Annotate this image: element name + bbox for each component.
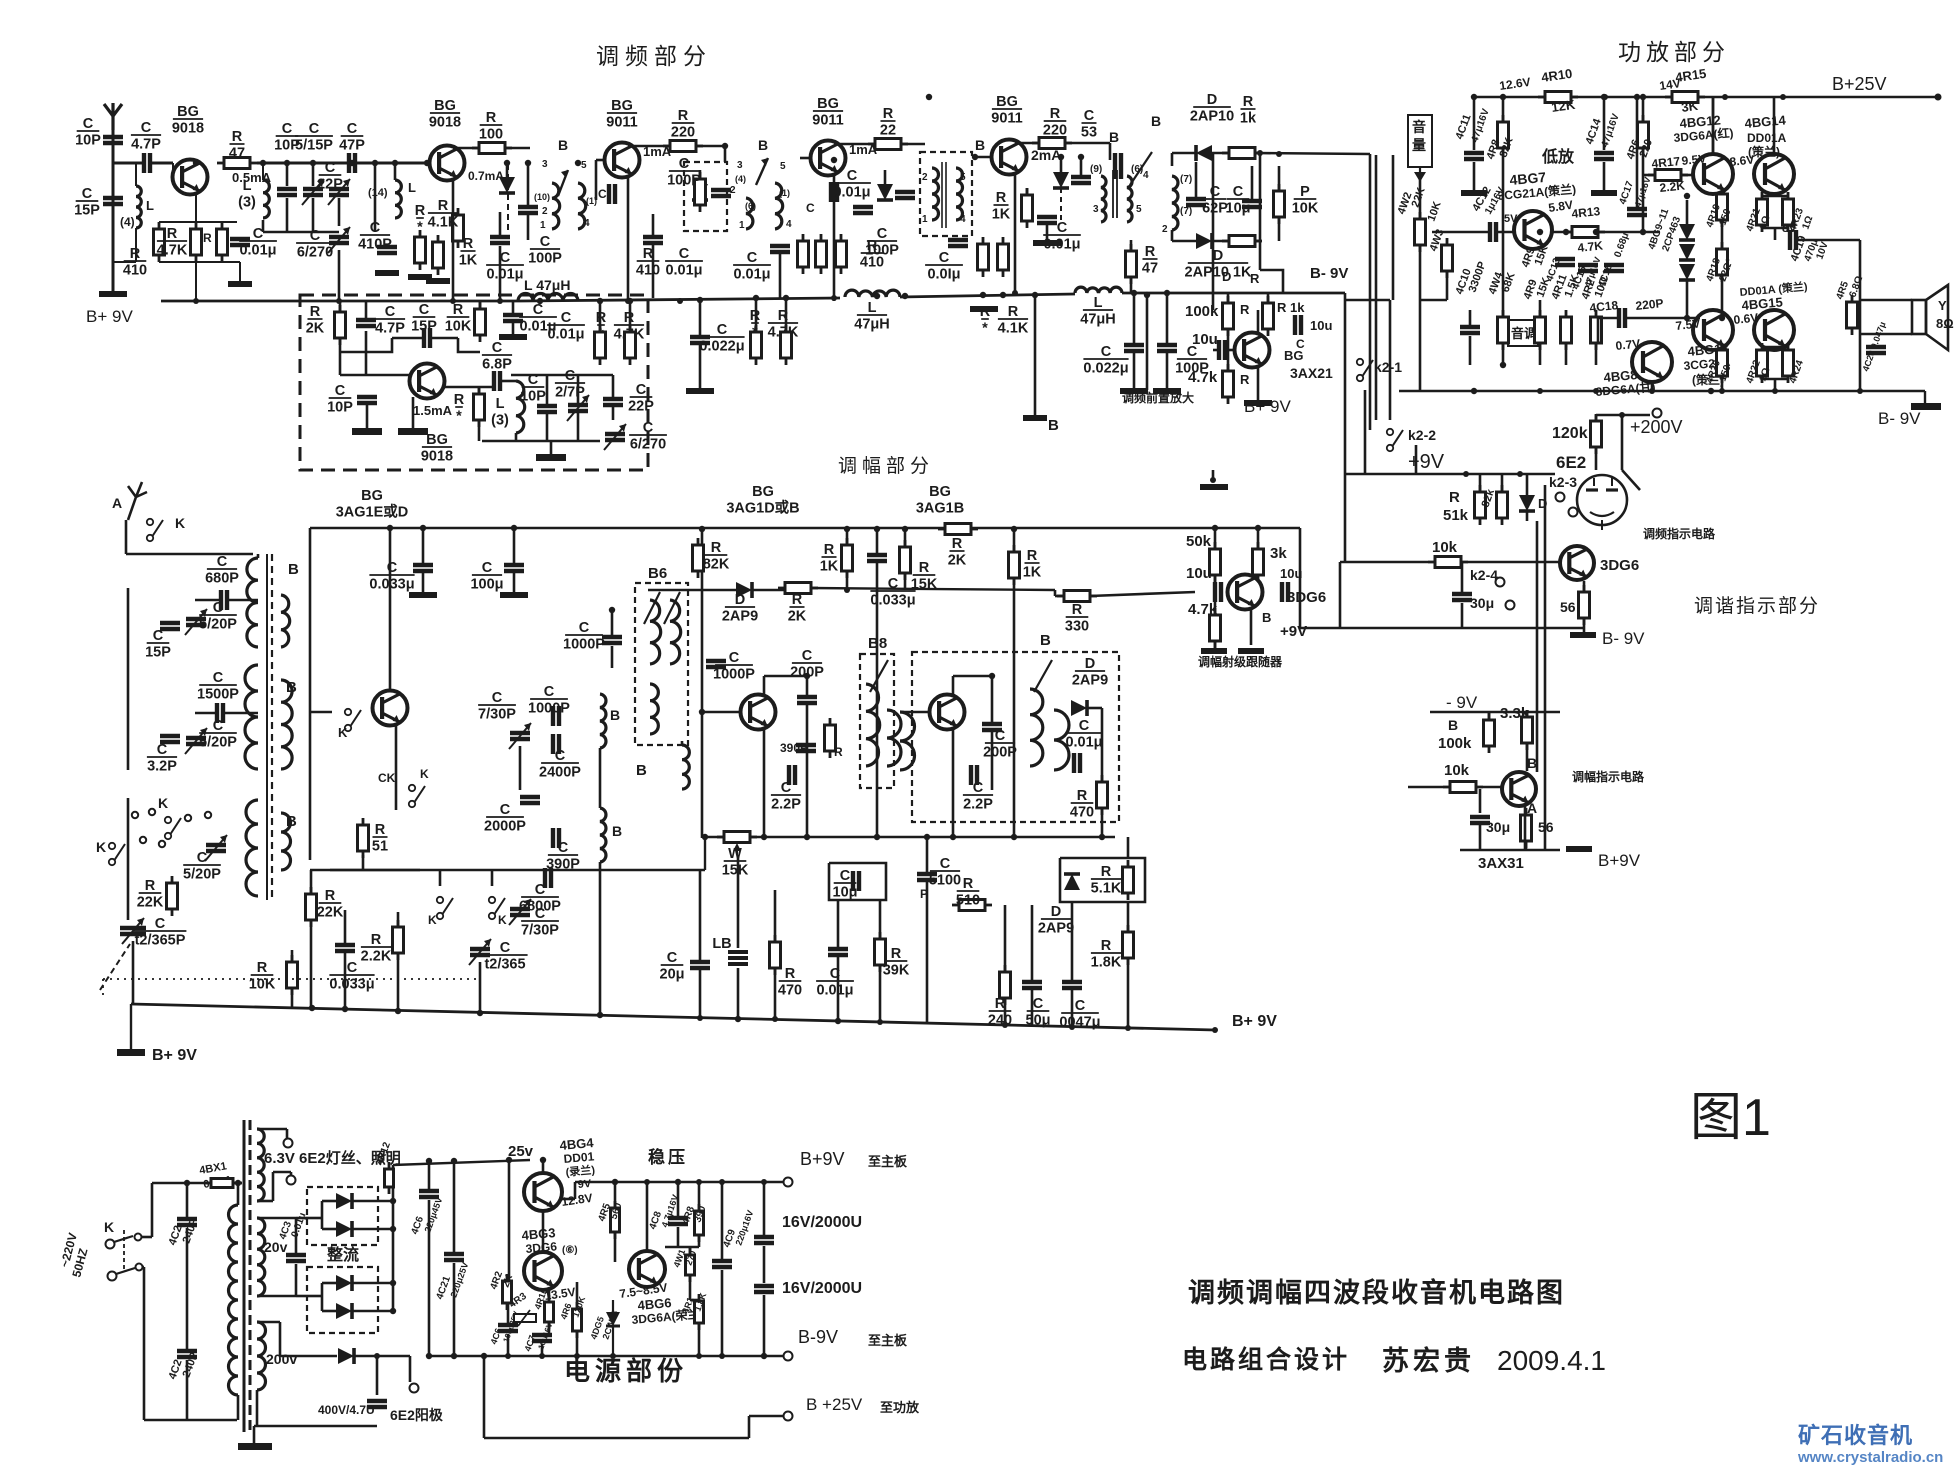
wire 30u up xyxy=(1461,562,1464,592)
ground 4C14 xyxy=(1591,190,1617,196)
label 3DG6Ar xyxy=(1673,125,1734,145)
transformer B3 core b xyxy=(945,162,947,228)
svg-text:4.7P: 4.7P xyxy=(131,137,161,153)
label 3300P xyxy=(1467,260,1489,294)
wire R24 up xyxy=(1130,240,1133,251)
wire BG2am base xyxy=(702,711,741,714)
svg-text:0.0Iμ: 0.0Iμ xyxy=(927,267,960,283)
wire f1 up xyxy=(763,1182,766,1235)
svg-text:调幅指示电路: 调幅指示电路 xyxy=(1572,769,1645,784)
label L4 xyxy=(491,396,509,429)
svg-text:20v: 20v xyxy=(264,1239,288,1255)
switch K1e xyxy=(409,785,425,807)
junction xyxy=(1719,315,1725,321)
junction xyxy=(497,298,503,304)
junction xyxy=(1593,229,1599,235)
label R9 xyxy=(479,110,503,143)
ground BG7 xyxy=(1244,400,1272,406)
wire k2 link xyxy=(1345,299,1390,302)
wire C22 up xyxy=(806,676,809,696)
resistor R30 am xyxy=(825,718,836,758)
wire R7 dn xyxy=(774,968,777,1019)
capacitor coupling 10u xyxy=(1219,340,1225,360)
svg-text:B+ 9V: B+ 9V xyxy=(86,307,133,326)
junction xyxy=(1463,471,1469,477)
label 50k xyxy=(1186,533,1212,550)
svg-text:C: C xyxy=(555,748,566,764)
label C16 osc xyxy=(519,882,561,915)
svg-text:C: C xyxy=(482,560,493,576)
transformer B6 boundary xyxy=(635,583,688,745)
label C7 xyxy=(317,160,343,193)
wire C25 dn xyxy=(779,253,782,298)
svg-text:2009.4.1: 2009.4.1 xyxy=(1497,1345,1606,1376)
ground C30 xyxy=(1033,240,1061,246)
wire C31 dn xyxy=(1133,352,1136,388)
wire R11 up xyxy=(478,387,481,394)
wire BG4 base dn xyxy=(595,160,598,200)
wire left column xyxy=(508,1160,511,1281)
transistor 4BG8 xyxy=(1632,342,1672,382)
wire to 4C18 xyxy=(1598,317,1618,320)
svg-text:5100: 5100 xyxy=(929,873,961,889)
label B+ node xyxy=(1048,417,1059,434)
svg-text:k2-4: k2-4 xyxy=(1470,567,1498,583)
label 4R18 xyxy=(1704,256,1723,283)
label watermark cn xyxy=(1798,1423,1913,1448)
svg-text:1000P: 1000P xyxy=(713,667,755,683)
wire C4a xyxy=(195,599,221,602)
label 4BG8 xyxy=(1603,367,1638,385)
resistor R4 am xyxy=(393,920,404,960)
label 4BG4 xyxy=(559,1135,595,1153)
label C33 xyxy=(1081,108,1097,141)
wire anode dn xyxy=(409,1356,412,1382)
label turns 10 xyxy=(534,192,550,202)
resistor 50k xyxy=(1210,542,1221,582)
junction xyxy=(424,160,430,166)
wire R13 up xyxy=(629,301,632,332)
junction xyxy=(1517,471,1523,477)
wire BG12 coll up xyxy=(1712,97,1715,154)
wire 4C10 up xyxy=(1469,310,1472,326)
label 4.7K pa xyxy=(1577,238,1604,255)
wire osc mid xyxy=(519,746,522,790)
svg-text:L: L xyxy=(408,180,416,195)
label 4C6 xyxy=(409,1215,426,1236)
capacitor C3p xyxy=(160,736,180,742)
ground C27c xyxy=(686,388,714,394)
B2 input dashed box xyxy=(684,162,727,231)
wire diode string dn xyxy=(1686,280,1689,318)
transistor 4BG15 xyxy=(1754,310,1794,350)
svg-text:BG: BG xyxy=(752,484,774,500)
svg-text:BG: BG xyxy=(434,98,456,114)
svg-text:R: R xyxy=(785,966,796,982)
transformer B2 winding xyxy=(281,680,292,769)
inductor L5 xyxy=(518,294,578,302)
label 3CG21A xyxy=(1497,181,1577,203)
transformer B6 primary xyxy=(650,600,661,664)
svg-text:L: L xyxy=(1094,295,1103,311)
svg-text:2AP10 1K: 2AP10 1K xyxy=(1185,265,1252,281)
tuning arrow B9 xyxy=(1034,660,1052,692)
label 10ohm xyxy=(1593,275,1612,299)
ground PA xyxy=(1911,403,1941,410)
svg-text:50k: 50k xyxy=(1186,533,1212,550)
label 4R3 xyxy=(507,1291,529,1311)
svg-text:(4): (4) xyxy=(120,215,135,229)
wire f1 dn xyxy=(763,1246,766,1283)
wire 4C18 out xyxy=(1626,317,1700,320)
transistor 4BG4 pass xyxy=(524,1173,562,1211)
wire tube right xyxy=(1621,415,1624,470)
wire K1f up xyxy=(439,870,442,886)
svg-text:(4): (4) xyxy=(735,174,746,184)
resistor R17 am xyxy=(1057,591,1097,602)
junction xyxy=(989,673,995,679)
transistor BG3 xyxy=(430,146,465,181)
fuse 4BX1 xyxy=(204,1179,240,1188)
wire BG7 emit xyxy=(1257,368,1260,400)
label C22 am xyxy=(790,648,824,681)
svg-text:0.01μ: 0.01μ xyxy=(1065,735,1102,751)
ground C32 xyxy=(1153,388,1181,394)
svg-text:82K: 82K xyxy=(703,557,730,573)
svg-text:2: 2 xyxy=(1162,224,1168,235)
svg-text:R: R xyxy=(167,226,178,242)
label k2-1 xyxy=(1374,359,1402,375)
label 12.6V xyxy=(1498,75,1531,93)
wire 4C21 up xyxy=(453,1161,456,1252)
label 82K xyxy=(1498,136,1516,159)
resistor 4R12 xyxy=(385,1162,394,1194)
dashed switch boundary xyxy=(103,978,480,980)
label C23 xyxy=(665,246,703,279)
label C24 am xyxy=(833,868,858,901)
variable capacitor C1b xyxy=(469,939,491,965)
capacitor C14 osc xyxy=(553,734,559,754)
svg-text:22P: 22P xyxy=(317,177,343,193)
wire BG1 base xyxy=(172,163,174,170)
svg-text:C: C xyxy=(1075,998,1086,1014)
label 560 xyxy=(608,1201,624,1221)
label C14 xyxy=(486,250,524,283)
wire 4R18 dn xyxy=(1721,275,1724,318)
label R30 xyxy=(1277,300,1305,315)
wire fb b xyxy=(431,337,458,340)
junction xyxy=(1069,1024,1075,1030)
wire D up xyxy=(1526,474,1529,495)
svg-text:5/15P: 5/15P xyxy=(295,138,333,154)
svg-text:R: R xyxy=(453,302,464,318)
label to mainboard b xyxy=(868,1333,908,1348)
transformer B8 secondary xyxy=(887,710,901,766)
svg-text:R: R xyxy=(1243,94,1254,110)
wire C27c dn xyxy=(699,344,702,388)
svg-text:6.8P: 6.8P xyxy=(482,357,512,373)
svg-text:0.022μ: 0.022μ xyxy=(1083,361,1128,377)
ground antenna xyxy=(99,291,127,297)
label R11 am xyxy=(988,996,1012,1029)
svg-text:K: K xyxy=(420,767,429,781)
label R11 xyxy=(454,392,465,425)
junction xyxy=(761,1179,767,1185)
label B6 xyxy=(648,565,667,582)
switch K1a xyxy=(147,519,163,541)
svg-text:3.2P: 3.2P xyxy=(147,759,177,775)
label 4R9 xyxy=(1520,246,1538,269)
wire 4R17 out xyxy=(1681,174,1692,177)
junction xyxy=(426,1158,432,1164)
junction xyxy=(610,1353,616,1359)
wire C17 up xyxy=(512,301,515,314)
switch K1b xyxy=(345,709,361,731)
wire rod top xyxy=(257,554,260,558)
svg-text:B+25V: B+25V xyxy=(1832,74,1887,94)
svg-text:L: L xyxy=(146,198,154,213)
wire AM mid bus step xyxy=(704,837,706,870)
resistor R5 xyxy=(335,305,346,345)
junction xyxy=(342,1006,348,1012)
wire BG2am emit xyxy=(763,730,766,837)
svg-text:*: * xyxy=(417,220,423,236)
label B5 xyxy=(1151,113,1161,129)
wire rect1 in xyxy=(307,1217,322,1220)
terminal k2-3a xyxy=(1556,493,1565,502)
junction xyxy=(1000,292,1006,298)
diode rect 2b xyxy=(336,1303,352,1319)
svg-text:2: 2 xyxy=(922,172,928,183)
label turns 4 xyxy=(120,215,135,229)
label 16V2000U b xyxy=(782,1280,862,1297)
svg-text:B: B xyxy=(286,679,297,696)
wire 56 up xyxy=(1583,581,1586,592)
label 4R11 xyxy=(1550,273,1570,301)
svg-text:B+ 9V: B+ 9V xyxy=(152,1047,197,1064)
wire 4R6 up xyxy=(576,1282,579,1309)
capacitor C12 xyxy=(377,247,397,253)
svg-text:电源部份: 电源部份 xyxy=(564,1356,688,1386)
svg-text:(7): (7) xyxy=(1180,206,1192,217)
svg-text:100P: 100P xyxy=(865,243,899,259)
transformer sec 6.3V xyxy=(257,1129,264,1201)
wire sec1 to term xyxy=(273,1171,291,1174)
svg-text:R: R xyxy=(711,540,722,556)
svg-text:C: C xyxy=(528,372,539,388)
wire C23 up xyxy=(876,529,879,554)
svg-text:R: R xyxy=(996,190,1007,206)
svg-text:L: L xyxy=(243,178,252,194)
svg-text:C: C xyxy=(679,156,690,172)
junction xyxy=(699,526,705,532)
transistor 4BG13 xyxy=(1693,310,1733,350)
ground C12am xyxy=(500,592,528,598)
wire fb to R10 xyxy=(458,338,480,352)
label pin4 xyxy=(584,218,590,229)
svg-text:2K: 2K xyxy=(948,553,967,569)
svg-text:30μ: 30μ xyxy=(1470,595,1494,611)
svg-text:C: C xyxy=(335,383,346,399)
transformer B1 primary xyxy=(552,183,560,229)
terminal sw b xyxy=(136,1264,143,1271)
label CN1 xyxy=(598,187,607,201)
svg-text:B: B xyxy=(1151,113,1161,129)
label R19 am xyxy=(1091,864,1122,897)
svg-text:62P: 62P xyxy=(1202,201,1228,217)
svg-text:A: A xyxy=(112,495,122,511)
wire to L1 xyxy=(135,163,137,186)
resistor R12 am xyxy=(938,524,978,535)
label pin3 xyxy=(542,159,548,170)
wire R4 up xyxy=(397,912,400,927)
wire anode branch xyxy=(377,1355,410,1358)
wire C7 dn xyxy=(338,198,341,226)
svg-text:6E2阳极: 6E2阳极 xyxy=(390,1407,444,1423)
svg-text:B: B xyxy=(610,707,620,723)
wire R22 out xyxy=(1065,142,1110,145)
junction xyxy=(540,1157,546,1163)
junction xyxy=(627,298,633,304)
label C25 xyxy=(733,250,771,283)
label C31 am xyxy=(1065,718,1103,751)
label C19 am xyxy=(713,650,755,683)
capacitor C23 am xyxy=(867,555,887,561)
label B9 xyxy=(1040,632,1051,649)
svg-text:10P: 10P xyxy=(327,400,353,416)
svg-text:47μH: 47μH xyxy=(1080,312,1115,328)
resistor R21y xyxy=(998,237,1009,277)
label 1.5K xyxy=(1563,273,1582,299)
junction xyxy=(420,525,426,531)
junction xyxy=(481,1353,487,1359)
wire C5b xyxy=(223,712,258,715)
label B+25V xyxy=(1832,74,1887,94)
label 3k xyxy=(1270,545,1287,562)
capacitor C26b xyxy=(853,207,873,213)
terminal B+ xyxy=(1023,415,1047,421)
junction xyxy=(193,298,199,304)
wire b25 drop xyxy=(483,1356,486,1438)
wire D2 dn xyxy=(1101,708,1104,782)
wire +9V rail xyxy=(1345,473,1555,476)
label 1ohm c xyxy=(1757,366,1772,383)
junction xyxy=(844,526,850,532)
capacitor 4C8 4.7u xyxy=(668,1218,688,1224)
label 4R23 xyxy=(1787,206,1806,233)
svg-text:(10): (10) xyxy=(534,192,550,202)
junction xyxy=(625,298,631,304)
svg-text:0.7V: 0.7V xyxy=(1615,336,1641,353)
capacitor C15 xyxy=(494,371,500,391)
transistor 3DG6 ti xyxy=(1560,546,1594,580)
variable capacitor C6 xyxy=(302,179,324,205)
label C27 am xyxy=(963,780,993,813)
wire sec1 top xyxy=(257,1128,287,1131)
wire 10k out xyxy=(1468,561,1560,564)
label 4R5 xyxy=(1834,280,1851,301)
oscillator dashed boundary xyxy=(300,295,648,470)
capacitor C25 xyxy=(770,246,790,252)
label TI section title xyxy=(1694,595,1820,617)
spacer2 xyxy=(1376,154,1474,156)
label 4R20 xyxy=(1704,358,1723,385)
wire det to R17b xyxy=(1055,595,1064,598)
resistor R 51k xyxy=(1475,485,1486,525)
wire tank top xyxy=(511,374,613,377)
label B+9V am right xyxy=(1232,1013,1277,1030)
coil left c xyxy=(246,800,258,896)
wire BG1am coll xyxy=(389,528,392,691)
transformer B3 core a xyxy=(941,162,943,228)
wire sec3 bot xyxy=(256,1390,259,1426)
capacitor C13 osc xyxy=(553,706,559,726)
svg-text:C: C xyxy=(995,728,1006,744)
ground R20 xyxy=(970,306,998,312)
wire pots join xyxy=(1420,299,1447,302)
svg-text:调幅射级跟随器: 调幅射级跟随器 xyxy=(1198,654,1283,669)
svg-text:B: B xyxy=(288,561,299,578)
spacer10 xyxy=(392,1165,394,1438)
label C11 xyxy=(327,383,353,416)
capacitor 4C20 xyxy=(1866,347,1886,353)
wire BG1am emit xyxy=(395,726,398,810)
transistor BG3 am xyxy=(930,695,965,730)
wire C4 gnd xyxy=(239,262,241,281)
label D1 am xyxy=(722,592,758,625)
wire R19 to B3 xyxy=(901,143,925,146)
junction xyxy=(1601,94,1607,100)
wire 30u up2 xyxy=(1479,789,1482,813)
resistor 4R5 560 xyxy=(611,1201,620,1239)
wire to bus xyxy=(195,262,197,301)
wire BG7 coll xyxy=(1257,310,1260,332)
label 1mA b xyxy=(849,142,878,157)
svg-text:0.6V: 0.6V xyxy=(1733,310,1759,327)
svg-text:R: R xyxy=(1449,489,1460,506)
capacitor C9 osc xyxy=(520,797,540,803)
label 20v xyxy=(264,1239,288,1255)
svg-text:BG: BG xyxy=(996,94,1018,110)
label C9 osc xyxy=(484,802,526,835)
wire R20 dn xyxy=(362,855,365,870)
label to mainboard a xyxy=(868,1154,908,1169)
svg-text:DD01A: DD01A xyxy=(1747,131,1787,145)
capacitor C27c xyxy=(690,337,710,343)
junction xyxy=(1640,94,1646,100)
wire tank1 xyxy=(262,163,264,180)
inductor LB1 xyxy=(728,952,748,964)
junction xyxy=(1649,388,1655,394)
resistor 100k ind xyxy=(1484,713,1495,753)
label R30 am xyxy=(834,745,843,759)
resistor R3 xyxy=(191,222,202,262)
label 220V xyxy=(57,1231,80,1268)
label C20 xyxy=(555,368,585,401)
capacitor 4C14 xyxy=(1594,153,1614,159)
svg-text:C: C xyxy=(1057,220,1068,236)
label 4C16 xyxy=(1596,262,1615,289)
svg-text:51k: 51k xyxy=(1443,507,1469,524)
transformer B4 secondary xyxy=(1127,176,1132,222)
label pin4 b xyxy=(1143,170,1149,181)
svg-text:t2/365: t2/365 xyxy=(484,957,525,973)
resistor R2 am xyxy=(287,955,298,995)
wire b25 up xyxy=(748,1416,751,1438)
capacitor 4C15 xyxy=(1578,265,1598,271)
wire left rail b xyxy=(127,640,130,770)
label C38 xyxy=(1226,184,1251,217)
